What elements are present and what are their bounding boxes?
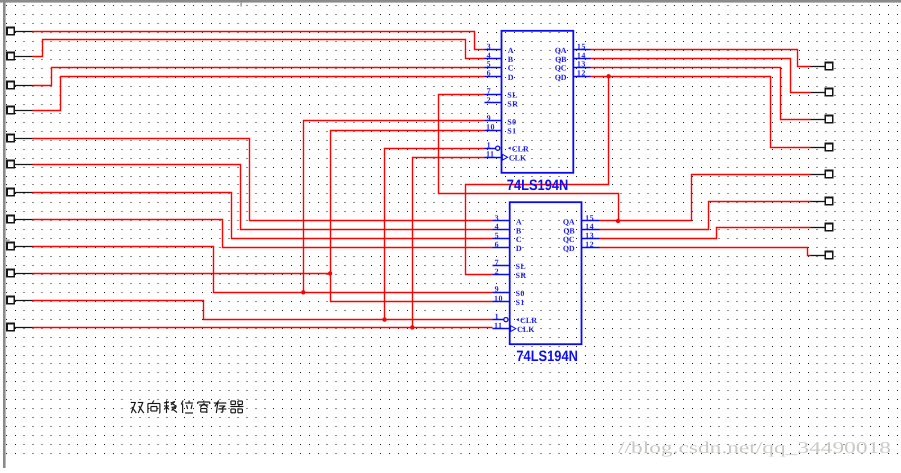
wire CLK net: L12 to U2 pin CLK [33, 327, 493, 329]
svg-text:S1: S1 [516, 298, 525, 307]
op IC U1 74LS194N body [502, 31, 574, 173]
svg-text:2: 2 [495, 267, 500, 276]
terminal J3 (left I/O pad 3) [7, 82, 33, 89]
svg-text:SR: SR [516, 271, 527, 280]
junction S1 net [328, 271, 332, 275]
label caption: 双向移位寄存器 (bidirectional shift register) [131, 401, 244, 414]
svg-text:SR: SR [507, 100, 518, 109]
junction CLK net [410, 325, 414, 329]
svg-text:5: 5 [487, 60, 492, 69]
junction CLR net [382, 317, 386, 321]
wire L6 to U2 pin B [33, 165, 493, 230]
svg-text:1: 1 [487, 141, 492, 150]
svg-text:QC: QC [563, 235, 575, 244]
svg-text:4: 4 [487, 51, 492, 60]
svg-text:15: 15 [577, 42, 586, 51]
svg-text:3: 3 [487, 42, 492, 51]
wire L5 to U2 pin A [33, 139, 493, 221]
svg-text:14: 14 [577, 51, 586, 60]
pin 14 (QB) of U1 [555, 51, 590, 64]
wire CLR net: L11 to U2 pin CLR [33, 301, 493, 320]
terminal J14 (right I/O pad 2) [811, 89, 833, 96]
terminal J19 (right I/O pad 7) [811, 224, 833, 231]
pin 5 (C) of U2 [493, 231, 523, 244]
svg-text:7: 7 [495, 258, 500, 267]
junction U2 QA net [616, 219, 620, 223]
svg-text:B: B [516, 226, 522, 235]
terminal J13 (right I/O pad 1) [811, 63, 833, 70]
svg-text:A: A [516, 218, 522, 227]
wire U1 QB to R2 [591, 59, 811, 93]
wire L2 to U1 pin B [33, 40, 485, 59]
label U1 value 74LS194N [507, 177, 569, 194]
wire L1 to U1 pin A [33, 32, 485, 50]
terminal J15 (right I/O pad 3) [811, 116, 833, 123]
svg-text:CLK: CLK [509, 154, 527, 163]
svg-text:SL: SL [516, 262, 527, 271]
pin 12 (QD) of U2 [563, 240, 600, 253]
junction U1 QD net [606, 74, 610, 78]
terminal J9 (left I/O pad 9) [7, 243, 33, 250]
wire U1 QC to R3 [591, 68, 811, 120]
svg-text:CLK: CLK [517, 325, 535, 334]
svg-text:10: 10 [494, 294, 503, 303]
pin 2 (SR) of U1 [485, 95, 519, 108]
wire S0 net: L9 to U2 pin S0 [33, 247, 493, 293]
terminal J18 (right I/O pad 6) [811, 198, 833, 205]
svg-text:S1: S1 [507, 127, 516, 136]
wire U1 QD to U2 SR [466, 77, 609, 275]
svg-text:S0: S0 [507, 117, 516, 126]
svg-text:12: 12 [585, 240, 594, 249]
wire U2 QC to R7 [600, 228, 811, 239]
pin 11 (CLK) of U2 [493, 321, 536, 334]
wire U1 SL from U2 QA [439, 95, 619, 221]
svg-text:7: 7 [487, 87, 492, 96]
pin 6 (D) of U1 [485, 69, 514, 82]
terminal J17 (right I/O pad 5) [811, 171, 833, 178]
svg-text:11: 11 [494, 321, 503, 330]
wire U2 QA to R5 [600, 175, 811, 221]
pin 15 (QA) of U1 [555, 42, 591, 55]
wire U2 QD to R8 [600, 248, 811, 256]
terminal J11 (left I/O pad 11) [7, 297, 33, 304]
ruler left bar [3, 0, 6, 468]
svg-text:QD: QD [555, 73, 567, 82]
op IC U2 74LS194N body [510, 202, 582, 344]
svg-text:CLR: CLR [520, 316, 537, 325]
pin 5 (C) of U1 [485, 60, 514, 73]
svg-text:C: C [516, 235, 522, 244]
pin 13 (QC) of U1 [555, 60, 591, 73]
ruler top bar [0, 0, 901, 3]
svg-text://blog.csdn.net/qq_34490018: //blog.csdn.net/qq_34490018 [618, 438, 891, 457]
pin 4 (B) of U1 [485, 51, 514, 64]
svg-text:74LS194N: 74LS194N [516, 348, 578, 365]
wire L7 to U2 pin C [33, 193, 493, 239]
terminal J5 (left I/O pad 5) [7, 135, 33, 142]
svg-text:14: 14 [585, 222, 594, 231]
pin 6 (D) of U2 [493, 240, 523, 253]
svg-text:13: 13 [585, 231, 594, 240]
terminal J10 (left I/O pad 10) [7, 270, 33, 277]
pin 3 (A) of U2 [493, 213, 523, 226]
pin 7 (SL) of U1 [485, 87, 518, 100]
svg-text:QC: QC [555, 64, 567, 73]
pin 10 (S1) of U1 [485, 122, 517, 135]
pin 1 (CLR) of U1 [485, 141, 530, 154]
pin 13 (QC) of U2 [563, 231, 600, 244]
ruler tick left [6, 240, 10, 241]
svg-text:9: 9 [487, 113, 492, 122]
wire L8 to U2 pin D [33, 220, 493, 248]
pin 7 (SL) of U2 [493, 258, 527, 271]
svg-text:QA: QA [555, 46, 567, 55]
svg-text:C: C [508, 64, 514, 73]
terminal J8 (left I/O pad 8) [7, 216, 33, 223]
pin 3 (A) of U1 [485, 42, 514, 55]
terminal J6 (left I/O pad 6) [7, 161, 33, 168]
svg-text:11: 11 [486, 150, 495, 159]
wire CLK net branch to U1 pin CLK [413, 158, 485, 328]
pin 12 (QD) of U1 [555, 69, 591, 82]
label U2 value 74LS194N [516, 348, 578, 365]
pin 9 (S0) of U1 [485, 113, 517, 126]
terminal J7 (left I/O pad 7) [7, 189, 33, 196]
svg-text:QB: QB [563, 226, 575, 235]
svg-text:3: 3 [495, 213, 500, 222]
wire L4 to U1 pin D [33, 77, 485, 111]
pin 9 (S0) of U2 [493, 285, 525, 298]
svg-text:9: 9 [495, 285, 500, 294]
wire S1 net vertical riser [331, 131, 493, 302]
svg-text:QA: QA [563, 218, 575, 227]
svg-text:6: 6 [495, 240, 500, 249]
svg-text:12: 12 [577, 69, 586, 78]
pin 11 (CLK) of U1 [485, 150, 528, 163]
svg-text:2: 2 [487, 95, 492, 104]
svg-text:13: 13 [577, 60, 586, 69]
terminal J20 (right I/O pad 8) [811, 252, 833, 259]
svg-text:S0: S0 [516, 289, 525, 298]
terminal J12 (left I/O pad 12) [7, 324, 33, 331]
svg-text:A: A [508, 46, 514, 55]
wire CLR net branch to U1 pin CLR [385, 149, 485, 320]
wire U1 QA to R1 [591, 50, 811, 67]
terminal J4 (left I/O pad 4) [7, 107, 33, 114]
svg-text:10: 10 [486, 122, 495, 131]
svg-text:74LS194N: 74LS194N [507, 177, 569, 194]
wire U1 QD to R4 [591, 77, 811, 148]
wire S0 net branch to U1 pin S0 [304, 121, 485, 293]
wire S1 net: L10 to junction [33, 273, 331, 275]
label watermark blog url [618, 438, 891, 457]
svg-text:SL: SL [507, 91, 518, 100]
svg-text:4: 4 [495, 222, 500, 231]
svg-text:5: 5 [495, 231, 500, 240]
terminal J1 (left I/O pad 1) [7, 28, 33, 35]
pin 14 (QB) of U2 [563, 222, 599, 235]
wire L3 to U1 pin C [33, 68, 485, 86]
pin 10 (S1) of U2 [493, 294, 525, 307]
svg-text:QD: QD [563, 244, 575, 253]
wire U2 QB to R6 [600, 202, 811, 230]
pin 2 (SR) of U2 [493, 267, 527, 280]
svg-text:15: 15 [585, 213, 594, 222]
svg-text:QB: QB [555, 55, 567, 64]
junction S0 net [301, 290, 305, 294]
pin 4 (B) of U2 [493, 222, 522, 235]
pin 1 (CLR) of U2 [493, 312, 538, 325]
svg-text:D: D [516, 244, 522, 253]
terminal J2 (left I/O pad 2) [7, 53, 33, 60]
svg-text:B: B [508, 55, 514, 64]
pin 15 (QA) of U2 [563, 213, 600, 226]
svg-text:6: 6 [487, 69, 492, 78]
terminal J16 (right I/O pad 4) [811, 144, 833, 151]
svg-text:CLR: CLR [512, 145, 529, 154]
svg-text:D: D [508, 73, 514, 82]
ruler tick top [241, 3, 242, 7]
svg-text:1: 1 [495, 312, 500, 321]
